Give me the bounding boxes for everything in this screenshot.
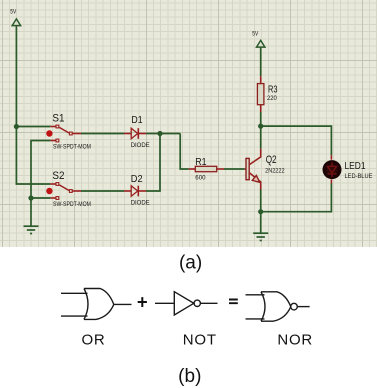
wire emitter to ground / LED bottom return bbox=[260, 190, 262, 234]
wire S2 bottom contact to ground rail bbox=[31, 197, 50, 199]
svg-text:LED1: LED1 bbox=[345, 161, 366, 172]
wire D2 cathode up to OR node bbox=[146, 134, 160, 192]
switch S2 (SW-SPDT-MOM) bbox=[46, 183, 81, 200]
resistor R3 220 bbox=[257, 76, 264, 112]
svg-text:SW-SPDT-MOM: SW-SPDT-MOM bbox=[53, 145, 91, 151]
junction node OR output (D1/D2 cathodes) bbox=[157, 131, 162, 136]
svg-text:(b): (b) bbox=[178, 366, 201, 387]
OR gate symbol bbox=[61, 289, 132, 320]
wire S1 pole to D1 anode bbox=[81, 133, 124, 135]
diode D2 (DIODE) bbox=[124, 186, 146, 197]
equals sign bbox=[229, 300, 238, 304]
NOR gate symbol bbox=[246, 292, 310, 321]
power symbol 5V (above R3) bbox=[257, 40, 265, 47]
wire 5V to R3 top bbox=[260, 47, 262, 76]
junction node S2 bottom / ground rail bbox=[28, 195, 33, 200]
svg-text:D2: D2 bbox=[131, 173, 143, 185]
wire R1 right to Q2 base bbox=[224, 168, 245, 170]
svg-text:600: 600 bbox=[195, 175, 206, 182]
LED1 (LED-BLUE) bbox=[323, 155, 342, 183]
diode D1 (DIODE) bbox=[124, 128, 146, 139]
junction node emitter / LED return bbox=[258, 209, 263, 214]
power symbol 5V (top-left) bbox=[12, 19, 20, 26]
svg-text:DIODE: DIODE bbox=[131, 143, 150, 149]
svg-text:R1: R1 bbox=[195, 157, 206, 168]
schematic grid background bbox=[0, 0, 377, 247]
svg-text:SW-SPDT-MOM: SW-SPDT-MOM bbox=[53, 202, 91, 208]
plus sign bbox=[138, 297, 147, 307]
wire OR node to R1 left bbox=[146, 134, 189, 170]
svg-text:Q2: Q2 bbox=[266, 154, 277, 166]
svg-text:OR: OR bbox=[81, 332, 105, 349]
NOT gate symbol bbox=[155, 292, 218, 315]
resistor R1 600 bbox=[189, 166, 224, 171]
wire 5V rail left: down then right to S2 top contact bbox=[16, 26, 50, 184]
ground symbol (bottom-left) bbox=[24, 226, 39, 233]
wire LED bottom to emitter node bbox=[261, 184, 332, 212]
svg-text:NOT: NOT bbox=[183, 332, 217, 349]
svg-text:(a): (a) bbox=[179, 253, 202, 274]
wire S2 pole to D2 anode bbox=[81, 190, 124, 192]
svg-text:5V: 5V bbox=[252, 30, 258, 37]
wire 5V rail to S1 top contact bbox=[16, 126, 50, 128]
svg-text:S2: S2 bbox=[52, 170, 64, 182]
junction node collector / LED branch bbox=[258, 124, 263, 129]
svg-text:DIODE: DIODE bbox=[131, 201, 150, 207]
svg-text:NOR: NOR bbox=[277, 332, 313, 349]
svg-text:S1: S1 bbox=[52, 112, 64, 124]
svg-text:220: 220 bbox=[267, 95, 277, 102]
svg-text:5V: 5V bbox=[10, 9, 16, 16]
svg-text:D1: D1 bbox=[131, 114, 142, 126]
ground symbol (below Q2) bbox=[253, 233, 268, 240]
svg-text:2N2222: 2N2222 bbox=[265, 167, 285, 174]
junction node at 5V rail / S1 top branch bbox=[14, 124, 19, 129]
wire R3 bottom to collector node bbox=[260, 112, 262, 149]
transistor Q2 (2N2222 NPN) bbox=[245, 149, 261, 190]
svg-text:LED-BLUE: LED-BLUE bbox=[345, 173, 373, 180]
switch S1 (SW-SPDT-MOM) bbox=[46, 125, 81, 142]
wire S1 bottom contact to ground rail bbox=[31, 141, 50, 227]
svg-text:R3: R3 bbox=[268, 84, 278, 95]
wire collector node to LED top bbox=[261, 126, 332, 155]
